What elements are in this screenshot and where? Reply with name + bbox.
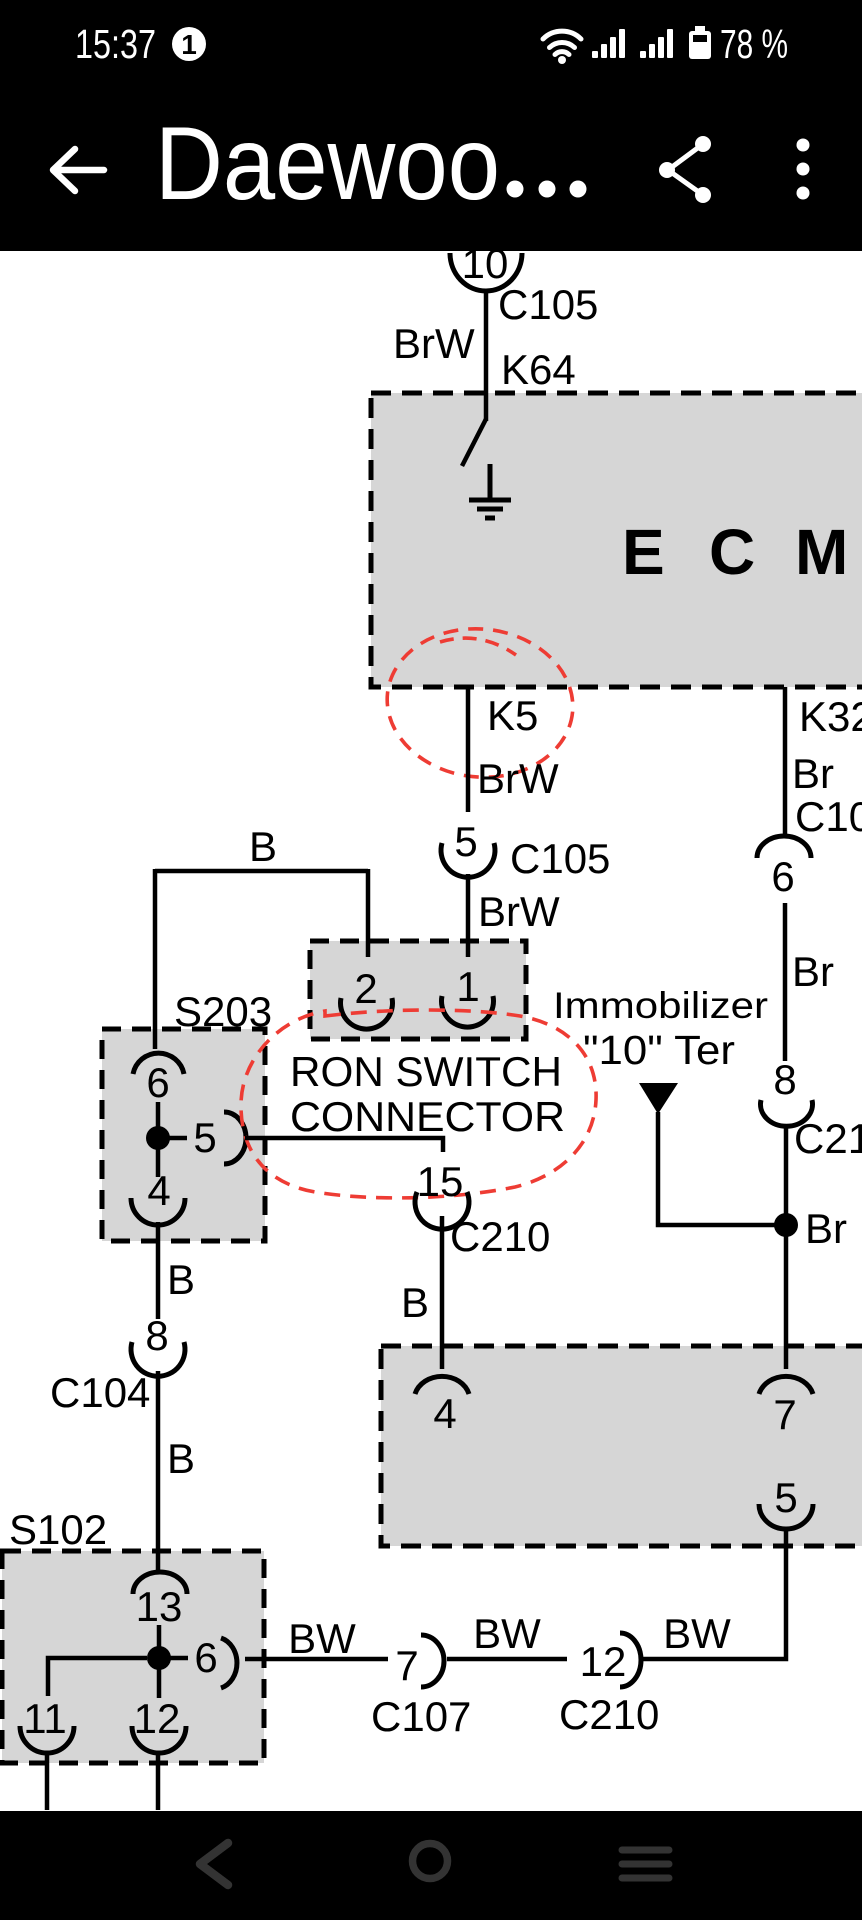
wire from S203 pin5 to 15 bbox=[245, 1138, 443, 1152]
svg-text:C105: C105 bbox=[510, 835, 610, 882]
overflow menu dots bbox=[797, 139, 810, 152]
signal bars 2 bbox=[640, 29, 673, 58]
junction dot S203 bbox=[146, 1126, 170, 1150]
svg-text:4: 4 bbox=[433, 1390, 456, 1437]
nav home circle bbox=[413, 1844, 448, 1879]
connector 15 arc bbox=[415, 1192, 469, 1229]
connector 5 arc bottom of big box bbox=[759, 1504, 813, 1529]
bottom nav bar bbox=[0, 1811, 862, 1920]
svg-text:10: 10 bbox=[462, 240, 509, 287]
wire B left vertical to S203 bbox=[153, 869, 158, 1049]
nav back chevron bbox=[200, 1843, 228, 1885]
svg-text:B: B bbox=[401, 1279, 429, 1326]
svg-text:2: 2 bbox=[354, 965, 377, 1012]
svg-text:7: 7 bbox=[773, 1391, 796, 1438]
connector 7 arc (frown) big box bbox=[759, 1376, 813, 1394]
svg-text:C210: C210 bbox=[559, 1691, 659, 1738]
connector 12 arc (right bulge) C210 bbox=[620, 1633, 641, 1687]
svg-text:C105: C105 bbox=[498, 281, 598, 328]
connector 5 arc (right bulge) bbox=[224, 1112, 246, 1164]
ECM box bbox=[371, 393, 862, 687]
svg-text:6: 6 bbox=[146, 1059, 169, 1106]
svg-text:5: 5 bbox=[774, 1474, 797, 1521]
svg-text:12: 12 bbox=[134, 1695, 181, 1742]
svg-text:CONNECTOR: CONNECTOR bbox=[290, 1093, 565, 1140]
connector 8 arc C104 bbox=[131, 1342, 185, 1376]
connector 4 arc (frown) big box bbox=[415, 1376, 469, 1394]
wire from 8 down through junction into box bbox=[784, 1124, 789, 1369]
svg-text:S102: S102 bbox=[9, 1506, 107, 1553]
svg-text:K32: K32 bbox=[799, 693, 862, 740]
connector 13 arc (frown) in S102 bbox=[133, 1572, 187, 1594]
svg-text:15:37: 15:37 bbox=[75, 21, 156, 67]
junction dot Br bbox=[774, 1213, 798, 1237]
connector 4 arc in S203 bbox=[131, 1198, 185, 1225]
svg-text:K64: K64 bbox=[501, 346, 576, 393]
wire K5 from ECM bbox=[466, 687, 471, 812]
notification badge bbox=[172, 27, 206, 61]
svg-text:C104: C104 bbox=[50, 1369, 150, 1416]
wire B right vertical into RON switch box bbox=[366, 869, 371, 957]
wire junction left to 11 bbox=[48, 1658, 147, 1696]
svg-text:13: 13 bbox=[136, 1583, 183, 1630]
svg-text:C105: C105 bbox=[795, 793, 862, 840]
svg-text:BW: BW bbox=[288, 1615, 356, 1662]
svg-text:E: E bbox=[622, 516, 665, 588]
wire junction to 12 bbox=[157, 1658, 162, 1698]
junction dot S102 bbox=[147, 1646, 171, 1670]
svg-text:C107: C107 bbox=[371, 1693, 471, 1740]
wire K64 from connector 10 to ECM bbox=[484, 291, 489, 421]
svg-text:6: 6 bbox=[771, 853, 794, 900]
wire 12 down bbox=[156, 1752, 161, 1812]
wire from 5 down and left bbox=[641, 1528, 786, 1659]
svg-text:Daewoo: Daewoo bbox=[155, 106, 500, 222]
red annotation loop around RON SWITCH CONNECTOR bbox=[241, 1010, 596, 1198]
svg-text:1: 1 bbox=[181, 29, 197, 60]
battery icon bbox=[695, 26, 705, 32]
wire K32 from ECM bbox=[783, 687, 788, 837]
svg-text:S203: S203 bbox=[174, 988, 272, 1035]
connector 6 arc (frown) in S203 bbox=[133, 1053, 184, 1074]
svg-text:C210: C210 bbox=[794, 1115, 862, 1162]
connector 7 arc (right bulge) C107 bbox=[421, 1635, 444, 1687]
svg-text:BW: BW bbox=[473, 1610, 541, 1657]
svg-text:RON SWITCH: RON SWITCH bbox=[290, 1048, 562, 1095]
wire antenna to junction bbox=[658, 1112, 780, 1225]
wire BrW into RON switch box bbox=[466, 874, 471, 957]
svg-text:5: 5 bbox=[454, 818, 477, 865]
ground symbol bbox=[469, 464, 511, 518]
wire stub junction to 6 bbox=[159, 1656, 188, 1661]
switch stub inside ECM bbox=[462, 419, 486, 466]
connector 12 arc bbox=[132, 1726, 186, 1753]
svg-text:BW: BW bbox=[663, 1610, 731, 1657]
connector 6 arc (frown) right bbox=[757, 836, 811, 858]
svg-text:15: 15 bbox=[417, 1158, 464, 1205]
connector 11 arc bbox=[20, 1726, 74, 1753]
svg-text:K5: K5 bbox=[487, 692, 538, 739]
svg-text:Immobilizer: Immobilizer bbox=[553, 985, 768, 1026]
svg-text:BrW: BrW bbox=[393, 320, 475, 367]
svg-text:C210: C210 bbox=[450, 1213, 550, 1260]
splice S102 box bbox=[2, 1551, 264, 1763]
connector 2 arc bbox=[341, 998, 393, 1029]
svg-text:12: 12 bbox=[580, 1638, 627, 1685]
red annotation circle around K5 bbox=[380, 620, 580, 787]
wire B horizontal bbox=[155, 869, 368, 874]
wire stub junction to 5 bbox=[158, 1136, 187, 1141]
splice S203 box bbox=[102, 1029, 265, 1241]
wifi icon bbox=[543, 31, 581, 54]
svg-text:"10" Ter: "10" Ter bbox=[583, 1027, 735, 1073]
svg-text:M: M bbox=[795, 516, 848, 588]
signal bars 1 bbox=[592, 29, 625, 58]
status + app bar bbox=[0, 0, 862, 251]
connector 8 arc right bbox=[761, 1100, 813, 1126]
svg-text:B: B bbox=[249, 823, 277, 870]
svg-text:C: C bbox=[709, 516, 755, 588]
wire Br bbox=[783, 903, 788, 1061]
wire 6 to junction bbox=[156, 1102, 161, 1130]
wire B from 15 down to box bbox=[440, 1216, 445, 1369]
svg-text:1: 1 bbox=[456, 963, 479, 1010]
big module box bbox=[381, 1346, 862, 1546]
svg-text:B: B bbox=[167, 1256, 195, 1303]
svg-text:11: 11 bbox=[23, 1695, 67, 1742]
wire 6 to 7 segment bbox=[245, 1657, 388, 1662]
nav menu bbox=[622, 1850, 669, 1878]
svg-text:78 %: 78 % bbox=[720, 21, 788, 67]
connector 10 arc (C105 top, cut by app bar) bbox=[450, 253, 522, 291]
svg-text:Br: Br bbox=[805, 1205, 847, 1252]
wire 12 to 5 segment bbox=[447, 1657, 567, 1662]
back arrow bbox=[53, 149, 104, 191]
immobilizer antenna triangle bbox=[639, 1083, 678, 1114]
wire 13 to junction bbox=[157, 1625, 162, 1650]
svg-text:Br: Br bbox=[792, 948, 834, 995]
wire junction to 4 bbox=[156, 1138, 161, 1177]
svg-text:6: 6 bbox=[194, 1634, 217, 1681]
svg-text:Br: Br bbox=[792, 750, 834, 797]
wire 11 down bbox=[45, 1752, 50, 1812]
connector 6 arc (right bulge) S102 bbox=[221, 1638, 237, 1688]
svg-text:8: 8 bbox=[145, 1312, 168, 1359]
svg-text:7: 7 bbox=[395, 1642, 418, 1689]
wire from S203 4 down to C104 bbox=[156, 1222, 161, 1319]
svg-text:8: 8 bbox=[773, 1056, 796, 1103]
svg-text:4: 4 bbox=[147, 1167, 170, 1214]
RON switch connector box bbox=[310, 941, 526, 1039]
svg-text:5: 5 bbox=[193, 1114, 216, 1161]
svg-text:BrW: BrW bbox=[477, 755, 559, 802]
svg-text:B: B bbox=[167, 1435, 195, 1482]
svg-text:BrW: BrW bbox=[478, 888, 560, 935]
wire B to S102 bbox=[156, 1371, 161, 1570]
connector 1 arc bbox=[441, 996, 493, 1027]
connector 5 arc C105 bbox=[441, 843, 495, 877]
share icon bbox=[668, 144, 703, 195]
